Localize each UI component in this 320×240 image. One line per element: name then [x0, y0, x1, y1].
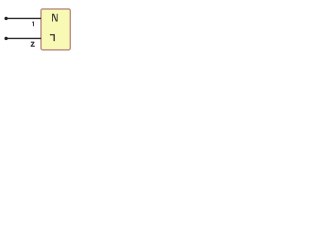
wire port 1: [6, 17, 41, 19]
background: [0, 0, 80, 60]
pin label 2: [31, 42, 35, 47]
terminal dot 2: [4, 37, 7, 40]
label N: [52, 14, 58, 22]
pin label 1: [32, 22, 34, 27]
terminal dot 1: [4, 17, 7, 20]
wire port 2: [6, 37, 41, 39]
label 7 (glyph in box, port 2): [50, 34, 55, 41]
network box N: [41, 9, 70, 50]
